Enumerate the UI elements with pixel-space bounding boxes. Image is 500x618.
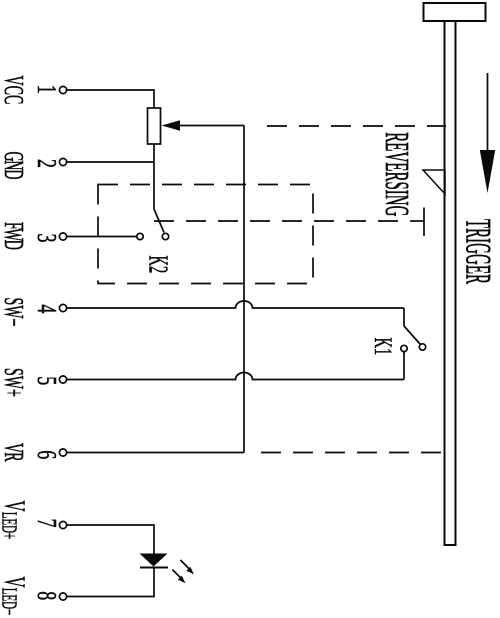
LED emission arrow 2	[172, 570, 185, 584]
LED D1 triangle	[140, 554, 168, 567]
trigger cap	[424, 3, 486, 21]
svg-text:3: 3	[32, 234, 61, 243]
switch K2 blade	[154, 209, 164, 233]
wire K1 top corner down	[403, 308, 405, 326]
wire pin7 to LED anode	[67, 525, 154, 554]
dashed mechanical link reversing	[267, 125, 446, 127]
svg-text:FWD: FWD	[0, 222, 29, 249]
trigger bar right edge	[455, 21, 457, 545]
terminal pin 6	[59, 449, 66, 456]
svg-text:REVERSING: REVERSING	[378, 132, 416, 216]
wire pin3 to K2 left contact	[67, 236, 137, 238]
svg-text:SW−: SW−	[0, 298, 29, 327]
terminal pin 2	[59, 158, 66, 165]
terminal pin 8	[59, 593, 66, 600]
svg-text:8: 8	[32, 591, 61, 600]
wire pin2 to vertical	[67, 161, 154, 163]
wire wiper vertical down to VR row	[243, 126, 245, 453]
dashed box around K2	[98, 185, 313, 284]
wire LED cathode down to pin8	[67, 568, 154, 597]
LED emission arrow 1	[180, 560, 194, 574]
switch K2 contact right	[162, 233, 168, 239]
resistor R (potentiometer body)	[148, 108, 161, 144]
terminal pin 3	[59, 233, 66, 240]
trigger pawl triangle	[423, 170, 445, 194]
trigger motion arrowhead	[480, 150, 495, 193]
wire pin4 to K1 with hop	[67, 301, 404, 308]
potentiometer wiper arrow	[162, 120, 181, 130]
svg-text:4: 4	[32, 304, 61, 313]
svg-text:SW+: SW+	[0, 368, 29, 397]
wire pin1 to resistor top	[67, 90, 154, 108]
svg-text:K1: K1	[369, 338, 399, 356]
mechanical link end segment	[410, 220, 424, 222]
wire wiper to vertical	[179, 125, 244, 127]
LED cathode bar	[140, 567, 168, 569]
svg-text:TRIGGER: TRIGGER	[457, 219, 498, 284]
wire K1 left contact down to SW+	[403, 352, 405, 380]
trigger bar left edge	[444, 21, 446, 545]
trigger motion arrow line	[487, 73, 489, 152]
mechanical link T bar	[423, 208, 425, 237]
terminal pin 4	[59, 304, 66, 311]
trigger bar bottom	[444, 544, 457, 546]
svg-text:2: 2	[32, 159, 61, 168]
svg-text:7: 7	[32, 519, 61, 528]
dashed mechanical link K2 to trigger	[154, 220, 410, 222]
svg-text:GND: GND	[0, 152, 29, 179]
switch K2 contact left	[137, 233, 143, 239]
svg-text:VCC: VCC	[0, 76, 29, 105]
svg-text:6: 6	[32, 450, 61, 459]
wire pin5 to K1 with hop	[67, 373, 404, 380]
terminal pin 7	[59, 521, 66, 528]
svg-text:VR: VR	[0, 443, 29, 462]
switch K1 blade	[404, 326, 420, 344]
terminal pin 1	[59, 86, 66, 93]
wire pin6 to wiper vertical	[67, 452, 244, 454]
switch K1 contact right	[419, 344, 425, 350]
wire resistor bottom down to K2 blade	[153, 144, 155, 209]
svg-text:5: 5	[32, 376, 61, 385]
terminal pin 5	[59, 376, 66, 383]
svg-text:K2: K2	[143, 256, 174, 274]
dashed mechanical link VR row to trigger	[261, 452, 444, 454]
svg-text:1: 1	[32, 85, 61, 94]
switch K1 contact left	[401, 345, 407, 351]
